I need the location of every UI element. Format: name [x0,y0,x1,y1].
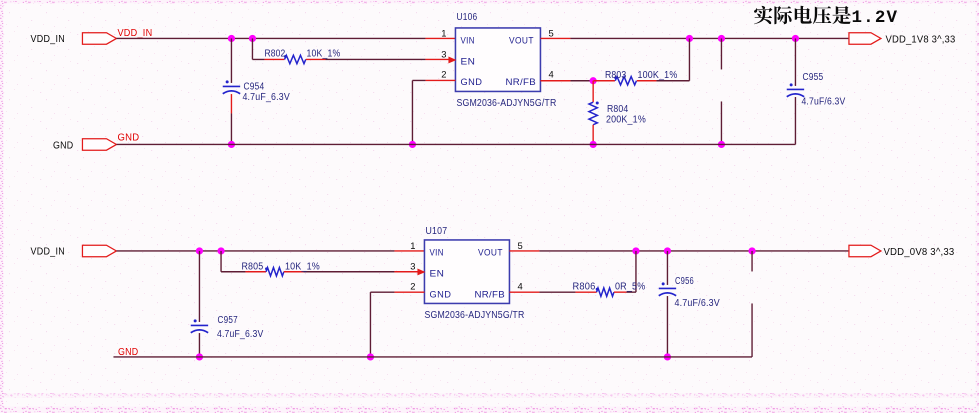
svg-text:VIN: VIN [429,248,444,259]
wire R805 left pin [245,271,266,273]
node junction U106 gnd [409,141,416,148]
svg-text:VOUT: VOUT [509,35,534,46]
wire pin4 stub U106 NR/FB [540,80,570,82]
wire C957 lower [198,333,200,357]
border frame top [0,0,979,3]
port VDD_1V8 (top output) [849,33,881,45]
svg-text:2: 2 [410,281,415,292]
label C955 refdes [802,72,823,83]
border frame bottom [0,407,979,413]
svg-text:VDD_0V8 3^,33: VDD_0V8 3^,33 [883,247,954,258]
wire R803 left pin [593,80,615,82]
svg-text:1: 1 [441,28,446,39]
label U107 refdes [425,226,447,237]
svg-text:2: 2 [441,68,446,79]
svg-text:10K_1%: 10K_1% [306,48,340,59]
svg-text:200K_1%: 200K_1% [606,114,646,125]
svg-text:4.7uF/6.3V: 4.7uF/6.3V [674,298,720,309]
wire R804 lower pin [592,125,594,145]
svg-text:4: 4 [548,68,553,79]
svg-text:C955: C955 [802,72,823,83]
svg-text:VDD_IN: VDD_IN [30,246,64,257]
op-amp U106 body [455,28,540,91]
svg-text:GND: GND [117,132,139,143]
annotation 实际电压是 (actual voltage is) [754,6,851,24]
label R802 refdes [264,48,285,59]
resistor R802 [284,55,306,64]
pin number 4 U107 [517,281,522,292]
svg-text:0R_5%: 0R_5% [615,281,646,292]
svg-text:R806: R806 [572,281,595,292]
pin number 2 U106 [441,68,446,79]
pin number 3 U107 [410,261,415,272]
svg-text:5: 5 [548,28,553,39]
label U107 pin EN [429,269,444,280]
wire R806 to VOUT [626,251,636,292]
label VDD_IN port name (bottom) [30,246,64,257]
svg-text:GND: GND [53,140,73,151]
wire R803 to VOUT [656,38,689,80]
svg-text:3: 3 [410,261,415,272]
label R803 refdes [605,70,627,81]
wire pin5 stub U107 VOUT [509,250,539,252]
node junction C954 gnd [228,141,235,148]
svg-text:1: 1 [410,240,415,251]
label U106 pin VOUT [509,35,534,46]
wire R803 right pin [637,80,657,82]
annotation 1.2V [851,8,898,28]
node junction C954 tap [228,35,235,42]
label U106 pin GND [460,77,482,88]
port VDD_IN (top input) [82,33,116,45]
node junction R803 top [686,35,693,42]
wire R802 to EN [325,58,425,60]
wire pin3 stub U107 EN [394,271,418,273]
net label GND (top) [117,132,139,143]
border frame right [976,0,979,413]
port GND (top) [82,139,116,151]
net label VDD_IN (top) [117,28,152,39]
border echo band [0,393,979,398]
svg-text:U106: U106 [456,12,477,23]
wire EN branch vertical (top) [252,38,264,59]
svg-text:VOUT: VOUT [478,248,503,259]
resistor R804 [589,102,599,125]
net label GND (bottom) [118,347,139,358]
wire GND rail (bottom) [113,356,752,358]
wire R806 left pin [575,291,596,293]
wire pin3 stub U106 EN [425,58,449,60]
wire C955 upper [794,38,796,85]
pin number 5 U107 [517,240,522,251]
label VDD_0V8 3^,33 [883,247,954,258]
label R805 value 10K_1% [285,261,320,272]
label C957 value 4.7uF_6.3V [217,329,264,340]
wire C955 lower [794,97,796,144]
wire U106 gnd branch [412,80,425,144]
pin number 4 U106 [548,68,553,79]
svg-text:EN: EN [460,56,475,67]
label U107 pin GND [429,290,451,301]
wire NRFB to junction [570,80,593,82]
wire R802 left pin [264,58,284,60]
wire DNP stub upper (top circuit) [720,38,722,69]
resistor R806 [596,288,614,297]
svg-text:4: 4 [517,281,522,292]
port VDD_0V8 (bottom output) [849,245,881,257]
label R803 value 100K_1% [637,70,677,81]
wire R805 right pin [284,271,304,273]
svg-text:GND: GND [429,290,451,301]
wire GND rail (top) [116,143,795,145]
label VDD_1V8 3^,33 [885,34,955,45]
wire VOUT rail (top) [570,37,848,39]
node junction EN tap (top) [249,35,256,42]
svg-text:VIN: VIN [460,35,475,46]
svg-text:4.7uF/6.3V: 4.7uF/6.3V [801,96,845,107]
svg-text:EN: EN [429,269,444,280]
label U106 refdes [456,12,477,23]
label GND port name (top) [53,140,73,151]
svg-text:R805: R805 [241,261,263,272]
label R805 refdes [241,261,263,272]
node junction C957 gnd [196,353,203,360]
svg-text:3: 3 [441,48,446,59]
label C956 value 4.7uF/6.3V [674,298,720,309]
label R804 refdes [607,104,629,115]
node junction C955 tap [792,35,799,42]
svg-text:4.7uF_6.3V: 4.7uF_6.3V [217,329,264,340]
wire pin2 stub U107 GND [394,291,424,293]
svg-text:R802: R802 [264,48,285,59]
label R804 value 200K_1% [606,114,646,125]
svg-text:100K_1%: 100K_1% [637,70,677,81]
capacitor C956 [659,282,676,295]
node junction EN tap (bottom) [217,247,224,254]
pin arrow U107 EN [417,269,425,276]
op-amp U107 body [424,240,509,304]
wire DNP stub lower (bottom circuit) [751,303,753,357]
resistor R803 [614,76,636,85]
wire VOUT rail (bottom) [539,250,848,252]
label U106 part number [456,98,556,109]
node junction R804 gnd [590,141,597,148]
wire R804 upper pin [592,81,594,102]
resistor R805 [265,267,284,276]
svg-text:VDD_IN: VDD_IN [117,28,152,39]
svg-text:5: 5 [517,240,522,251]
svg-text:NR/FB: NR/FB [474,290,505,301]
svg-text:GND: GND [460,77,482,88]
pin number 3 U106 [441,48,446,59]
pin number 5 U106 [548,28,553,39]
svg-text:C956: C956 [675,276,694,287]
wire R805 to EN [303,271,394,273]
label C957 refdes [217,315,238,326]
wire pin1 stub U107 VIN [394,250,424,252]
pin number 2 U107 [410,281,415,292]
svg-text:SGM2036-ADJYN5G/TR: SGM2036-ADJYN5G/TR [456,98,556,109]
label C954 value 4.7uF_6.3V [242,92,290,103]
node junction R806 top [632,247,639,254]
node junction R803/R804 [590,77,597,84]
wire C956 lower [666,296,668,357]
wire VDD_IN rail (bottom) [116,250,394,252]
label U106 pin VIN [460,35,475,46]
wire EN branch vertical (bottom) [221,251,245,272]
node junction C956 tap [664,247,671,254]
svg-text:1.2V: 1.2V [851,8,898,28]
pin number 1 U107 [410,240,415,251]
node junction DNP top (top circuit) [718,35,725,42]
label R806 value 0R_5% [615,281,646,292]
label R806 refdes [572,281,595,292]
pin number 1 U106 [441,28,446,39]
label U106 pin NR/FB [505,77,536,88]
node junction DNP top (bottom circuit) [748,247,755,254]
label U107 pin NR/FB [474,290,505,301]
wire R802 right pin [306,58,326,60]
wire C957 upper [198,251,200,322]
capacitor C954 [223,80,240,93]
wire DNP stub lower (top circuit) [720,101,722,144]
svg-text:10K_1%: 10K_1% [285,261,320,272]
pin arrow U106 EN [448,57,456,64]
wire C956 upper [666,251,668,285]
node junction DNP gnd (top circuit) [718,141,725,148]
label U107 pin VOUT [478,248,503,259]
svg-text:NR/FB: NR/FB [505,77,536,88]
wire R806 right pin [614,291,627,293]
wire C954 lower red [230,94,232,113]
port VDD_IN (bottom input) [82,245,116,257]
svg-text:VDD_IN: VDD_IN [30,34,64,45]
svg-text:C957: C957 [217,315,238,326]
label C954 refdes [243,81,264,92]
wire C954 lower [230,113,232,144]
wire U107 gnd branch [370,292,394,357]
wire pin4 stub U107 NR/FB [509,291,539,293]
wire pin1 stub U106 VIN [425,37,455,39]
svg-text:C954: C954 [243,81,264,92]
svg-text:R804: R804 [607,104,629,115]
label U106 pin EN [460,56,475,67]
svg-text:R803: R803 [605,70,627,81]
node junction C956 gnd [664,353,671,360]
svg-text:U107: U107 [425,226,447,237]
wire pin5 stub U106 VOUT [540,37,570,39]
label U107 part number [424,310,524,321]
label R802 value 10K_1% [306,48,340,59]
svg-text:4.7uF_6.3V: 4.7uF_6.3V [242,92,290,103]
wire C954 upper [230,38,232,82]
wire DNP stub upper (bottom circuit) [751,251,753,272]
label U107 pin VIN [429,248,444,259]
border frame left [0,0,3,413]
label C956 refdes [675,276,694,287]
svg-text:VDD_1V8 3^,33: VDD_1V8 3^,33 [885,34,955,45]
wire VDD_IN rail (top) [116,37,425,39]
label VDD_IN port name (top) [30,34,64,45]
svg-text:SGM2036-ADJYN5G/TR: SGM2036-ADJYN5G/TR [424,310,524,321]
wire pin2 stub U106 GND [425,79,455,81]
node junction U107 gnd [367,353,374,360]
label C955 value 4.7uF/6.3V [801,96,845,107]
wire NRFB to R806 [539,291,575,293]
capacitor C957 [191,319,208,332]
node junction C957 tap [196,247,203,254]
capacitor C955 [787,83,804,96]
